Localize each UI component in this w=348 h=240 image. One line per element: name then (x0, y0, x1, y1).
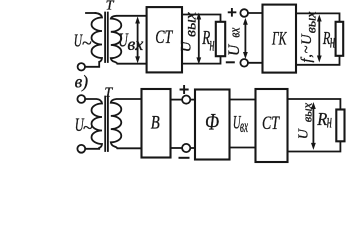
block CT2 (СТ) (256, 89, 288, 162)
label Uвх diagram2 (rotated) (226, 27, 243, 56)
wire CT2 output top (288, 99, 341, 110)
arrow Uвх diagram2 (243, 18, 248, 59)
svg-text:U: U (226, 43, 243, 56)
block CT1 (СТ) (147, 7, 182, 72)
svg-text:н: н (210, 34, 215, 56)
svg-text:f,~U: f,~U (299, 33, 315, 63)
arrow Uвых diagram3 (311, 102, 316, 150)
wire CT2 output bottom (288, 141, 341, 151)
arrow Uвх diagram1 (135, 16, 140, 63)
transformer T1 core (105, 13, 108, 63)
transformer T2 core (105, 97, 108, 152)
transformer T2 secondary winding + wires to V block (111, 99, 142, 148)
label Uвых diagram1 (rotated) (179, 12, 200, 52)
terminal circle plus diagram3 (182, 96, 190, 104)
svg-text:вых: вых (305, 11, 320, 34)
svg-text:R: R (316, 109, 327, 129)
svg-text:~: ~ (82, 33, 92, 53)
resistor Rн diagram3 (336, 110, 344, 142)
wire GK output bottom (296, 56, 340, 65)
wire V to plus terminal (171, 99, 183, 101)
wire plus terminal to F (190, 99, 195, 101)
wire F to CT2 top (230, 99, 256, 101)
svg-text:вх: вх (228, 27, 244, 37)
svg-text:СТ: СТ (155, 27, 173, 48)
wire top input diagram2 (248, 12, 263, 14)
resistor Rн diagram2 (336, 22, 344, 56)
svg-text:U: U (179, 40, 195, 52)
svg-text:н: н (327, 111, 332, 133)
terminal circle top left T2 (77, 95, 85, 103)
terminal circle bottom left T1 (78, 63, 85, 70)
svg-text:Т: Т (106, 0, 115, 13)
wire CT1 output bottom (182, 56, 221, 63)
wire GK output top (296, 13, 340, 21)
label minus diagram2 (227, 61, 234, 63)
svg-text:н: н (330, 31, 335, 53)
label Uвых diagram3 (rotated) (297, 102, 315, 139)
svg-text:Ф: Ф (205, 109, 219, 134)
block F (Ф) (195, 90, 230, 160)
wire bottom input diagram2 (248, 62, 263, 64)
transformer T2 primary winding (85, 99, 102, 149)
svg-text:~: ~ (83, 117, 93, 137)
transformer T1 primary winding (85, 13, 102, 67)
transformer T1 secondary winding + wires to CT block (111, 16, 147, 64)
label plus diagram3 (181, 86, 188, 93)
svg-text:U: U (297, 128, 312, 139)
terminal circle top diagram2 (240, 9, 248, 17)
wire V to minus terminal (171, 147, 183, 149)
svg-text:СТ: СТ (262, 113, 280, 134)
wire minus terminal to F (190, 147, 195, 149)
wire T1 primary top stub (86, 12, 96, 14)
resistor Rн diagram1 (216, 22, 225, 56)
arrow Uвых diagram1 (196, 13, 201, 65)
svg-text:В: В (151, 114, 160, 134)
label plus diagram2 (229, 9, 236, 16)
terminal circle minus diagram3 (182, 144, 190, 152)
svg-text:вх: вх (127, 34, 143, 54)
svg-text:вх: вх (240, 116, 248, 136)
block GK (ГК) (263, 5, 297, 73)
label minus diagram3 (180, 157, 189, 159)
terminal circle bottom diagram2 (240, 59, 248, 67)
svg-text:вых: вых (182, 12, 199, 37)
block V (В) (142, 89, 171, 158)
wire F to CT2 bottom (230, 147, 256, 149)
label f,~Uвых diagram2 (rotated) (299, 11, 320, 63)
terminal circle bottom left T2 (77, 145, 85, 153)
wire CT1 output top (182, 15, 221, 22)
arrow Uвых diagram2 (317, 15, 322, 63)
svg-text:ГК: ГК (271, 29, 287, 50)
svg-text:в): в) (75, 71, 89, 91)
